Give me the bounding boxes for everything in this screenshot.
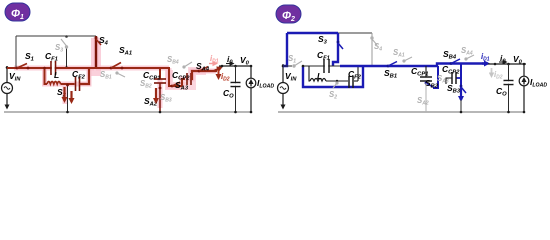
wire iD2 branch / CO column (right)	[508, 64, 510, 112]
wire: lower loop of L and CF2 (red)	[45, 68, 48, 84]
capacitor CCP1 (red riser from rail)	[159, 68, 161, 79]
svg-text:S2: S2	[329, 90, 337, 101]
svg-text:S3: S3	[318, 34, 328, 46]
capacitor CO	[231, 83, 241, 87]
box left edge	[15, 36, 17, 68]
current arrow return	[70, 91, 72, 102]
current source ILOAD (right)	[523, 64, 525, 76]
svg-text:CCP2: CCP2	[172, 70, 190, 82]
svg-text:i0: i0	[500, 53, 506, 65]
svg-text:CCP1: CCP1	[143, 70, 160, 82]
svg-text:Φ: Φ	[282, 10, 291, 22]
capacitor CCP2 (horizontal, red)	[182, 79, 185, 86]
svg-text:S4: S4	[99, 35, 109, 47]
svg-text:S3: S3	[55, 43, 63, 54]
svg-text:iD1: iD1	[481, 52, 490, 63]
capacitor CF1 (right)	[324, 59, 329, 73]
svg-text:CO: CO	[496, 86, 507, 98]
wire: CF2 up to mid rail	[80, 68, 90, 84]
svg-text:L: L	[317, 71, 322, 81]
wire: mid rail (phase-1 path, red)	[7, 67, 96, 69]
VIN source (right)	[278, 64, 289, 108]
switch SB3 (closed, blue) CCP2 bottom to ground	[460, 64, 462, 87]
svg-text:SA4: SA4	[461, 46, 473, 57]
current arrow through SA2	[155, 88, 157, 102]
svg-text:SA2: SA2	[417, 96, 429, 107]
svg-text:V0: V0	[513, 54, 523, 66]
phase badge PHI2	[276, 5, 301, 23]
svg-text:ILOAD: ILOAD	[530, 77, 547, 89]
box top line	[16, 35, 96, 37]
svg-text:SB3: SB3	[447, 83, 461, 95]
switch S1 (open, gray) on mid rail	[292, 64, 303, 69]
bottom rail (ground return)	[4, 111, 251, 113]
switch S3 (closed, blue) on vertical	[333, 33, 338, 66]
switch SB2 (closed) at CCP1 bottom (right)	[425, 82, 428, 85]
wire: L branch (right, black)	[309, 66, 310, 81]
svg-text:VIN: VIN	[9, 71, 21, 83]
current arrow through S2	[63, 87, 65, 101]
svg-text:SA4: SA4	[196, 61, 210, 73]
box top line (right)	[287, 32, 372, 34]
wire: blue step up to output level	[437, 64, 486, 67]
svg-text:SB4: SB4	[443, 49, 457, 61]
current arrow iD2	[218, 70, 220, 78]
wire: blue mid rail to SB1 and CCP1	[340, 65, 437, 67]
VIN source	[2, 66, 13, 108]
switch S2 (open, gray) (right)	[333, 82, 338, 88]
wire: blue loop around L branch	[303, 66, 363, 87]
svg-text:V0: V0	[240, 55, 250, 67]
wire: red riser to SA3	[169, 68, 182, 86]
wire iD2 branch / CO column	[235, 66, 237, 112]
switch SA2 (open, gray) to ground (right)	[425, 83, 427, 112]
svg-text:CF1: CF1	[45, 51, 58, 63]
current arrow iD2 gray (right)	[491, 68, 493, 76]
switch S4 (open, gray) (right)	[371, 33, 373, 66]
bottom rail (right)	[278, 111, 524, 113]
svg-text:CO: CO	[223, 88, 234, 100]
svg-text:S1: S1	[288, 54, 296, 65]
svg-text:SA1: SA1	[393, 48, 405, 59]
svg-text:1: 1	[20, 14, 24, 21]
capacitor CO (right)	[504, 81, 514, 85]
wire: mid rail right section (red)	[94, 67, 170, 69]
svg-text:iD2: iD2	[221, 72, 230, 83]
svg-text:CF1: CF1	[317, 50, 330, 62]
phase badge PHI1	[5, 3, 30, 21]
switch SA4 (closed) CCP2 to output	[191, 71, 217, 79]
svg-text:VIN: VIN	[285, 71, 297, 83]
output rail	[219, 65, 252, 67]
switch SB4 (closed, blue)	[450, 62, 453, 65]
svg-text:SA1: SA1	[119, 45, 132, 57]
wire: blue path along top (phase 2)	[287, 32, 338, 34]
inductor L (right)	[310, 79, 326, 82]
switch S3 (open, inactive) hanging from top line	[66, 47, 68, 68]
switch SB1 (closed, blue) on rail	[387, 65, 390, 68]
switch SA3 (closed)	[171, 85, 174, 88]
output rail (right)	[488, 63, 526, 65]
inductor L (red)	[47, 82, 61, 85]
svg-text:ILOAD: ILOAD	[257, 78, 274, 90]
svg-text:S1: S1	[25, 51, 34, 63]
svg-text:CCP2: CCP2	[442, 64, 460, 76]
svg-text:S4: S4	[374, 42, 382, 53]
svg-text:2: 2	[290, 16, 295, 23]
svg-text:SB4: SB4	[167, 55, 179, 66]
current source ILOAD	[250, 66, 252, 78]
svg-text:Φ: Φ	[11, 8, 20, 20]
capacitor CCP1 (right)	[425, 66, 427, 77]
mid rail (right, thin black)	[283, 65, 340, 67]
capacitor CF2 (right)	[349, 76, 353, 88]
svg-text:SB1: SB1	[100, 70, 112, 81]
box left edge (right, blue active path)	[283, 33, 287, 66]
svg-text:CF2: CF2	[72, 69, 86, 81]
switch S4 (closed, red) on box right edge column	[95, 36, 97, 68]
svg-text:CF2: CF2	[348, 69, 362, 81]
switch SA2 (closed) CCP1 bottom to ground	[159, 83, 161, 112]
switch SA1 (closed, red) on rail	[110, 67, 113, 70]
capacitor CF2 (red)	[76, 77, 80, 91]
wire: node to CF2	[61, 83, 75, 85]
capacitor CCP2 (right, horizontal)	[456, 77, 461, 79]
capacitor CF1 on mid rail	[51, 61, 56, 75]
svg-text:SB1: SB1	[384, 68, 397, 80]
svg-text:iD2: iD2	[494, 70, 503, 81]
pink glow of phase-1 current path	[91, 38, 101, 76]
switch S2 (closed) to ground	[66, 84, 69, 114]
switch S1 (closed, red) on mid rail	[16, 64, 30, 70]
svg-text:L: L	[54, 70, 59, 80]
svg-text:SB3: SB3	[160, 93, 172, 104]
